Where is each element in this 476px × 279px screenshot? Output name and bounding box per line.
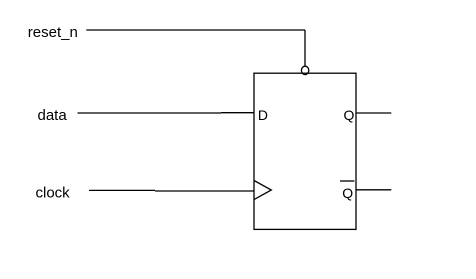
svg-text:clock: clock xyxy=(36,185,71,202)
wire reset_n horizontal xyxy=(86,29,305,31)
wire clock to clk pin xyxy=(155,190,254,192)
clock edge triangle xyxy=(254,181,271,200)
svg-text:D: D xyxy=(258,107,268,123)
wire reset_n vertical drop xyxy=(304,30,306,67)
wire data xyxy=(78,112,222,114)
svg-text:data: data xyxy=(38,107,68,124)
wire clock xyxy=(89,189,155,191)
flip-flop body U1 xyxy=(254,73,356,229)
wire data to D pin xyxy=(221,112,254,114)
inverter bubble on reset pin xyxy=(301,66,308,74)
wire Qbar output xyxy=(356,189,391,191)
overline of Qbar xyxy=(340,180,354,182)
svg-text:reset_n: reset_n xyxy=(28,24,78,41)
svg-text:Q: Q xyxy=(342,185,353,201)
svg-text:Q: Q xyxy=(344,107,355,123)
wire Q output xyxy=(356,112,391,114)
